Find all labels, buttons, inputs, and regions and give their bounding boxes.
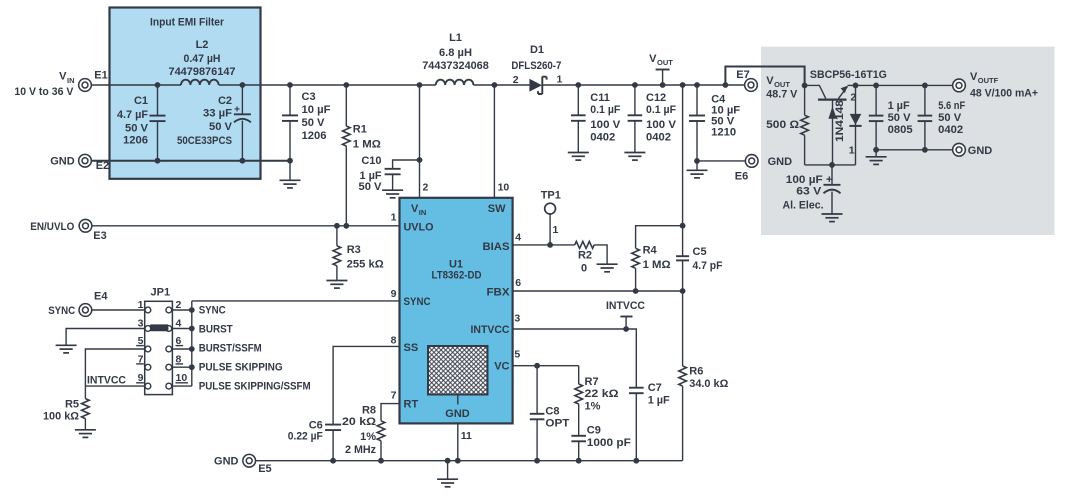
- net flag VOUT: [649, 53, 673, 85]
- capacitor C5: [676, 246, 723, 291]
- junction C6 bottom: [330, 458, 336, 464]
- svg-text:74479876147: 74479876147: [169, 66, 236, 78]
- svg-text:E6: E6: [735, 170, 748, 182]
- svg-text:OUT: OUT: [657, 58, 673, 67]
- junction bus SYNC: [189, 307, 195, 313]
- capacitor C7: [629, 382, 670, 461]
- wire E7 node over to output filter: [725, 67, 804, 86]
- wire filter base rail: [805, 164, 856, 166]
- svg-text:1 MΩ: 1 MΩ: [643, 259, 671, 271]
- svg-text:E5: E5: [258, 463, 271, 475]
- resistor R4: [632, 226, 683, 291]
- svg-text:R5: R5: [65, 399, 79, 411]
- svg-text:DFLS260-7: DFLS260-7: [511, 60, 561, 72]
- junction R8 bottom: [378, 458, 384, 464]
- junction C9 bottom: [576, 458, 582, 464]
- svg-text:1N4148: 1N4148: [834, 100, 846, 142]
- junction base rail: [829, 162, 835, 168]
- svg-text:E1: E1: [94, 69, 107, 81]
- junction R4 bottom: [633, 288, 639, 294]
- svg-text:BURST/SSFM: BURST/SSFM: [199, 343, 262, 355]
- svg-text:C10: C10: [361, 155, 381, 167]
- svg-text:V: V: [411, 203, 419, 215]
- wire filter output ground rail: [876, 149, 953, 151]
- wire L2 to C3 node: [219, 84, 290, 86]
- svg-text:OUTF: OUTF: [978, 76, 999, 85]
- svg-text:INTVCC: INTVCC: [471, 324, 510, 336]
- svg-text:LT8362-DD: LT8362-DD: [432, 270, 482, 282]
- transistor Q1 SBCP56-16T1G: [805, 69, 887, 104]
- svg-text:E3: E3: [93, 230, 106, 242]
- junction output filter input node: [802, 83, 808, 89]
- svg-text:R2: R2: [578, 250, 592, 262]
- svg-text:GND: GND: [50, 156, 75, 168]
- svg-text:500 Ω: 500 Ω: [766, 119, 799, 131]
- ground below C4: [687, 161, 708, 178]
- jumper shunt on pins 3-4: [150, 324, 168, 331]
- svg-text:0.1 µF: 0.1 µF: [646, 104, 676, 116]
- junction C1 bottom: [155, 158, 161, 164]
- pin number JP1-8: [176, 353, 184, 365]
- wire FBX pin 6: [513, 290, 683, 292]
- svg-text:255 kΩ: 255 kΩ: [347, 259, 384, 271]
- wire SW pin 10 drop: [493, 85, 495, 198]
- pin number JP1-6: [176, 335, 184, 347]
- svg-text:GND: GND: [968, 145, 993, 157]
- node VOUT 48.7V label: [766, 75, 798, 100]
- junction E7 tap: [723, 82, 729, 88]
- svg-text:1: 1: [553, 224, 559, 236]
- svg-text:INTVCC: INTVCC: [87, 374, 126, 386]
- svg-text:100 kΩ: 100 kΩ: [43, 411, 79, 423]
- svg-text:UVLO: UVLO: [404, 221, 434, 233]
- svg-text:10: 10: [498, 182, 510, 194]
- junction C12 top: [632, 82, 638, 88]
- svg-text:IN: IN: [419, 208, 427, 217]
- junction R1 bottom: [343, 223, 349, 229]
- terminal GND (filter output): [953, 143, 993, 156]
- svg-text:5: 5: [514, 348, 520, 360]
- svg-text:VC: VC: [494, 361, 509, 373]
- terminal E1: [79, 69, 108, 91]
- resistor R3: [326, 226, 383, 288]
- terminal VOUTF: [953, 71, 1038, 100]
- wire C4 to E6: [697, 160, 746, 162]
- svg-text:0402: 0402: [938, 124, 963, 136]
- junction SW node: [492, 82, 498, 88]
- junction C2 top: [240, 82, 246, 88]
- svg-text:6.8 µH: 6.8 µH: [439, 47, 472, 59]
- wire JP1 pin 9 INTVCC: [85, 385, 145, 387]
- capacitor C3: [282, 85, 331, 161]
- svg-text:BIAS: BIAS: [483, 241, 510, 253]
- svg-text:C6: C6: [309, 419, 323, 431]
- svg-text:7: 7: [391, 389, 397, 401]
- svg-text:EN/UVLO: EN/UVLO: [30, 221, 74, 233]
- svg-text:4: 4: [176, 317, 182, 329]
- svg-text:50 V: 50 V: [302, 117, 326, 129]
- wire RT pin 7: [381, 404, 400, 421]
- junction pin 11: [455, 458, 461, 464]
- pin number JP1-10: [176, 372, 189, 384]
- wire VC pin 5: [513, 365, 579, 367]
- junction bus BURST/SSFM: [189, 346, 195, 352]
- svg-text:R6: R6: [689, 365, 703, 377]
- resistor R1: [343, 85, 381, 226]
- junction C8 bottom: [534, 458, 540, 464]
- capacitor C9: [571, 424, 631, 460]
- base lead with arrow: [828, 100, 836, 165]
- svg-text:C9: C9: [587, 424, 601, 436]
- svg-text:SYNC: SYNC: [404, 296, 431, 308]
- svg-text:E2: E2: [96, 160, 109, 172]
- wire JP1 pin 8 to bus: [172, 366, 192, 368]
- svg-text:3: 3: [138, 317, 144, 329]
- junction FBX/C5/R6: [680, 288, 686, 294]
- junction INTVCC flag: [623, 326, 629, 332]
- svg-text:100 µF +: 100 µF +: [786, 174, 833, 186]
- svg-text:PULSE SKIPPING/SSFM: PULSE SKIPPING/SSFM: [199, 380, 311, 392]
- svg-text:1%: 1%: [585, 401, 601, 413]
- ground below JP1 pin 3: [56, 345, 77, 353]
- svg-text:PULSE SKIPPING: PULSE SKIPPING: [199, 362, 283, 374]
- junction R1 top: [343, 82, 349, 88]
- svg-text:SYNC: SYNC: [48, 305, 75, 317]
- svg-text:0.47 µH: 0.47 µH: [184, 53, 221, 65]
- terminal E2: [79, 154, 110, 172]
- svg-text:1: 1: [391, 211, 397, 223]
- svg-text:V: V: [649, 53, 657, 65]
- capacitor C8: [530, 366, 570, 461]
- pin number JP1-5: [136, 335, 144, 347]
- svg-text:11: 11: [461, 430, 472, 442]
- svg-text:R7: R7: [585, 376, 599, 388]
- junction C3 bottom: [287, 158, 293, 164]
- inductor L1: [422, 32, 489, 85]
- svg-text:0402: 0402: [590, 132, 615, 144]
- junction VOUT flag: [660, 82, 666, 88]
- inductor L2: [169, 39, 236, 85]
- svg-text:GND: GND: [445, 408, 470, 420]
- wire JP1 pin 3 to ground: [66, 329, 145, 345]
- input EMI filter box: [110, 8, 261, 179]
- svg-text:9: 9: [391, 288, 397, 300]
- svg-text:1210: 1210: [711, 127, 736, 139]
- svg-text:48.7 V: 48.7 V: [766, 89, 798, 101]
- capacitor C2 (electrolytic): [177, 85, 251, 161]
- svg-text:1206: 1206: [123, 135, 148, 147]
- svg-text:1: 1: [138, 299, 144, 311]
- node VIN label: [14, 71, 74, 98]
- svg-text:2: 2: [513, 74, 519, 86]
- svg-text:C1: C1: [134, 95, 148, 107]
- junction VIN pin line: [417, 82, 423, 88]
- diode D1 DFLS260-7: [511, 44, 562, 94]
- svg-text:C7: C7: [648, 382, 662, 394]
- svg-text:1000 pF: 1000 pF: [587, 437, 631, 449]
- svg-text:TP1: TP1: [541, 190, 561, 202]
- resistor 500 ohm: [766, 85, 808, 164]
- U1 exposed pad (crosshatch): [428, 346, 488, 420]
- svg-text:100 V: 100 V: [646, 119, 677, 131]
- terminal E6: [735, 155, 758, 183]
- svg-text:1 µF: 1 µF: [648, 394, 670, 406]
- svg-text:100 V: 100 V: [590, 119, 621, 131]
- svg-text:INTVCC: INTVCC: [606, 300, 645, 312]
- capacitor C12: [624, 85, 676, 160]
- svg-text:L1: L1: [449, 32, 462, 44]
- svg-text:0: 0: [581, 263, 587, 275]
- svg-text:V: V: [766, 75, 774, 87]
- capacitor 100uF Al. Elec.: [783, 165, 843, 222]
- wire D1 cathode to E7: [542, 84, 745, 86]
- wire JP1 pin 5 down: [85, 349, 145, 386]
- resistor R6: [679, 291, 729, 461]
- junction C4 top: [694, 82, 700, 88]
- svg-text:63 V: 63 V: [796, 185, 822, 197]
- ground below 1uF: [866, 150, 887, 165]
- capacitor C11: [568, 85, 621, 160]
- svg-text:50 V: 50 V: [888, 112, 912, 124]
- svg-text:1 MΩ: 1 MΩ: [353, 138, 381, 150]
- svg-text:33 µF: 33 µF: [203, 108, 232, 120]
- junction C3 top: [287, 82, 293, 88]
- svg-text:E7: E7: [736, 69, 749, 81]
- resistor R5: [43, 386, 96, 437]
- output filter shaded box: [761, 47, 1055, 235]
- svg-text:Input EMI Filter: Input EMI Filter: [150, 16, 225, 28]
- junction C8: [534, 363, 540, 369]
- ground bus E2 to C3: [91, 160, 290, 162]
- capacitor C10: [359, 155, 420, 198]
- svg-text:4.7 µF: 4.7 µF: [117, 109, 148, 121]
- resistor R2: [575, 241, 618, 274]
- svg-text:R4: R4: [643, 245, 658, 257]
- capacitor 5.6nF 0402: [918, 85, 966, 149]
- svg-text:10 µF: 10 µF: [302, 104, 331, 116]
- junction bus PULSE SKIPPING: [189, 364, 195, 370]
- svg-text:0402: 0402: [646, 132, 671, 144]
- svg-text:GND: GND: [768, 156, 793, 168]
- svg-text:22 kΩ: 22 kΩ: [585, 388, 619, 400]
- svg-text:R3: R3: [347, 244, 361, 256]
- pin label VIN: [411, 203, 426, 217]
- junction TP1: [547, 242, 553, 248]
- svg-text:E4: E4: [94, 290, 108, 302]
- ground below C3: [280, 161, 301, 188]
- svg-text:C12: C12: [646, 92, 666, 104]
- test point TP1: [541, 190, 561, 245]
- connector JP1: [145, 287, 173, 395]
- svg-text:1%: 1%: [360, 431, 376, 443]
- junction R3: [334, 223, 340, 229]
- wire JP1 pin 4 to bus: [172, 328, 192, 330]
- net flag INTVCC: [606, 300, 645, 329]
- junction 1uF top: [873, 83, 879, 89]
- svg-text:C11: C11: [590, 92, 610, 104]
- junction ground stub: [445, 458, 451, 464]
- wire INTVCC pin 3: [513, 329, 637, 388]
- junction C2 bottom: [240, 158, 246, 164]
- wire JP1 pin 2 to bus: [172, 309, 192, 311]
- svg-text:L2: L2: [196, 39, 209, 51]
- wire E1 to L2: [91, 84, 181, 86]
- junction 1uF bottom: [873, 147, 879, 153]
- svg-text:50CE33PCS: 50CE33PCS: [177, 135, 232, 147]
- svg-text:GND: GND: [214, 456, 239, 468]
- terminal E5: [243, 454, 272, 475]
- wire JP1 pin 6 to bus: [172, 348, 192, 350]
- svg-text:V: V: [970, 71, 978, 83]
- svg-text:R8: R8: [362, 405, 376, 417]
- svg-text:R1: R1: [353, 124, 367, 136]
- junction R4 top: [680, 223, 686, 229]
- svg-text:34.0 kΩ: 34.0 kΩ: [689, 378, 728, 390]
- resistor R8: [342, 405, 385, 461]
- svg-text:C8: C8: [545, 405, 559, 417]
- svg-text:0.1 µF: 0.1 µF: [590, 104, 620, 116]
- svg-text:C3: C3: [302, 91, 316, 103]
- svg-text:48 V/100 mA+: 48 V/100 mA+: [970, 88, 1038, 100]
- svg-text:2: 2: [176, 299, 182, 311]
- wire EN/UVLO to pin 1: [92, 225, 400, 227]
- wire VOUT down to divider: [682, 85, 684, 256]
- junction C7 bottom: [633, 458, 639, 464]
- svg-text:C4: C4: [711, 94, 726, 106]
- wire SS pin 8: [333, 346, 399, 424]
- svg-text:SW: SW: [488, 203, 506, 215]
- junction bus BURST: [189, 326, 195, 332]
- diode 1N4148: [834, 85, 861, 164]
- svg-text:JP1: JP1: [151, 287, 171, 299]
- junction C5 line top: [680, 82, 686, 88]
- svg-text:+: +: [234, 104, 240, 115]
- junction 5.6nF top: [922, 83, 928, 89]
- wire E4 to JP1 pin 1: [92, 309, 145, 311]
- wire JP1 pin 10 to bus: [172, 385, 192, 387]
- svg-text:50 V: 50 V: [125, 123, 149, 135]
- svg-text:5.6 nF: 5.6 nF: [938, 100, 965, 112]
- wire BIAS pin 4: [513, 244, 575, 246]
- svg-text:2: 2: [423, 182, 429, 194]
- wire SYNC bus to pin 9: [192, 300, 400, 302]
- svg-text:0805: 0805: [888, 124, 913, 136]
- svg-text:2 MHz: 2 MHz: [345, 444, 376, 456]
- svg-text:V: V: [59, 71, 67, 83]
- wire L1 to SW node: [473, 84, 529, 86]
- svg-text:SYNC: SYNC: [199, 304, 226, 316]
- ground rail: [255, 460, 682, 462]
- svg-text:50 V: 50 V: [359, 181, 383, 193]
- wire VIN node to L1: [420, 84, 436, 86]
- svg-text:FBX: FBX: [487, 286, 511, 298]
- svg-text:4: 4: [515, 232, 521, 244]
- svg-text:1 µF: 1 µF: [888, 100, 910, 112]
- wire VIN pin 2 drop: [419, 85, 421, 198]
- pin number JP1-9: [136, 372, 144, 384]
- svg-text:1: 1: [849, 145, 855, 157]
- junction C10 tap: [417, 157, 423, 163]
- svg-text:Al. Elec.: Al. Elec.: [783, 199, 824, 211]
- svg-text:BURST: BURST: [199, 324, 233, 336]
- op-amp U1 LT8362-DD body: [400, 198, 513, 424]
- terminal E3: [79, 219, 107, 242]
- ground below rail: [437, 461, 458, 487]
- mode select bus: [191, 301, 193, 386]
- wire emitter to VOUTF: [848, 84, 953, 86]
- svg-text:1206: 1206: [302, 130, 327, 142]
- svg-text:10 V to 36 V: 10 V to 36 V: [14, 86, 74, 98]
- terminal E4: [79, 290, 108, 316]
- wire GND pin 11: [457, 423, 459, 460]
- svg-text:OPT: OPT: [545, 418, 569, 430]
- svg-text:RT: RT: [404, 399, 419, 411]
- svg-text:0.22 µF: 0.22 µF: [288, 431, 323, 443]
- svg-text:50 V: 50 V: [209, 121, 233, 133]
- junction 5.6nF bottom: [922, 147, 928, 153]
- resistor R7: [575, 366, 619, 436]
- svg-text:SBCP56-16T1G: SBCP56-16T1G: [810, 69, 887, 81]
- junction 1N4148 anode: [853, 83, 859, 89]
- svg-text:8: 8: [391, 334, 397, 346]
- svg-text:IN: IN: [67, 76, 75, 85]
- capacitor C4: [689, 85, 740, 161]
- svg-text:C2: C2: [218, 95, 232, 107]
- capacitor C6: [288, 419, 341, 460]
- pin number JP1-7: [136, 353, 144, 365]
- junction C4 bottom: [694, 158, 700, 164]
- junction C1 top: [155, 82, 161, 88]
- svg-text:74437324068: 74437324068: [422, 60, 489, 72]
- svg-text:6: 6: [515, 277, 521, 289]
- svg-text:D1: D1: [530, 44, 544, 56]
- svg-text:4.7 pF: 4.7 pF: [693, 260, 723, 272]
- terminal E7: [736, 69, 757, 91]
- svg-text:20 kΩ: 20 kΩ: [342, 416, 376, 428]
- capacitor C1: [117, 85, 166, 161]
- svg-text:1: 1: [557, 74, 563, 86]
- svg-text:3: 3: [514, 312, 520, 324]
- wire R1 node to VIN pin node: [346, 84, 419, 86]
- capacitor 1uF 0805: [869, 85, 913, 149]
- svg-text:50 V: 50 V: [938, 112, 962, 124]
- wire C3 node to R1 node: [290, 84, 346, 86]
- junction C11 top: [575, 82, 581, 88]
- svg-text:SS: SS: [404, 342, 419, 354]
- svg-text:C5: C5: [693, 246, 707, 258]
